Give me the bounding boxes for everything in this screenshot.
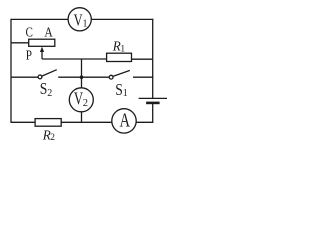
svg-text:C: C (26, 26, 33, 41)
rheostat box (29, 39, 55, 46)
switch S1 pivot (109, 75, 113, 79)
wire wiper to R1 (42, 58, 107, 60)
svg-text:1: 1 (120, 44, 125, 54)
battery short plate (146, 102, 160, 105)
wire middle left (11, 76, 38, 78)
wire rheostat input (11, 42, 29, 44)
resistor R2 box (35, 119, 61, 127)
svg-text:2: 2 (47, 88, 52, 99)
battery long plate (139, 97, 167, 99)
wire top left (11, 18, 68, 20)
wire V2 lower stub (81, 112, 83, 123)
svg-text:A: A (44, 26, 53, 41)
wire right vertical upper (152, 19, 154, 99)
resistor R1 box (107, 53, 132, 61)
svg-text:1: 1 (83, 19, 88, 30)
rheostat wiper arrow stem (41, 51, 43, 59)
switch S2 blade (42, 70, 57, 76)
wire R1 to right vertical (132, 58, 153, 60)
wire right vertical lower (152, 103, 154, 123)
svg-text:S: S (115, 80, 123, 99)
junction node (80, 75, 84, 79)
wire top right (91, 18, 153, 20)
svg-text:V: V (74, 11, 83, 30)
wire middle between switches (58, 76, 109, 78)
svg-text:2: 2 (83, 98, 88, 109)
ammeter A circle (112, 109, 136, 133)
switch S2 pivot (38, 75, 42, 79)
svg-text:A: A (120, 110, 131, 132)
svg-text:P: P (26, 48, 32, 63)
wire middle right (133, 76, 153, 78)
wire bottom middle (61, 121, 112, 123)
svg-text:2: 2 (50, 133, 55, 142)
rheostat wiper arrowhead (40, 47, 44, 52)
wire bottom left (11, 121, 35, 123)
switch S1 blade (113, 70, 130, 76)
voltmeter V2 circle (69, 88, 93, 112)
svg-text:S: S (40, 79, 48, 98)
wire left vertical (10, 19, 12, 123)
voltmeter V1 circle (68, 8, 91, 31)
wire V2 upper stub (81, 59, 83, 88)
svg-text:1: 1 (123, 88, 128, 99)
wire bottom right (136, 121, 153, 123)
